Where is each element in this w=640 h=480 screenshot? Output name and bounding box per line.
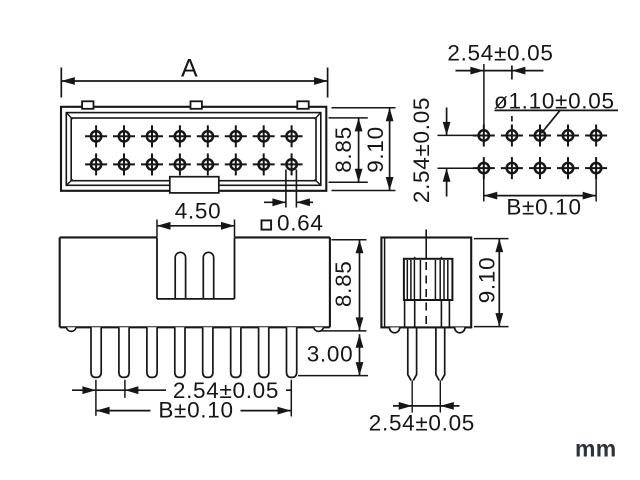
svg-text:B±0.10: B±0.10	[506, 195, 581, 220]
svg-text:2.54±0.05: 2.54±0.05	[409, 97, 434, 203]
svg-text:9.10: 9.10	[363, 126, 388, 173]
svg-text:2.54±0.05: 2.54±0.05	[447, 41, 553, 66]
svg-text:3.00: 3.00	[307, 342, 354, 367]
svg-text:9.10: 9.10	[475, 257, 500, 304]
svg-text:B±0.10: B±0.10	[158, 398, 233, 423]
svg-text:A: A	[181, 55, 198, 83]
svg-text:8.85: 8.85	[331, 126, 356, 173]
svg-text:4.50: 4.50	[175, 199, 222, 224]
svg-text:2.54±0.05: 2.54±0.05	[369, 411, 475, 436]
svg-text:8.85: 8.85	[331, 261, 356, 308]
svg-text:0.64: 0.64	[277, 211, 324, 236]
svg-text:mm: mm	[575, 436, 617, 462]
